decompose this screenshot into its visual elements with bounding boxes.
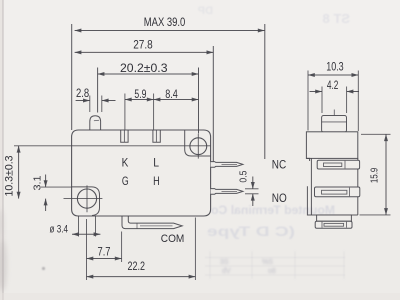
dim arrow line right: [102, 100, 116, 102]
bottom-left mounting boss: [72, 187, 100, 216]
ext line side left: [307, 71, 309, 131]
ext line left (body edge up): [71, 24, 73, 130]
ghost text row B: [207, 223, 295, 239]
svg-text:(C D Type: (C D Type: [207, 223, 295, 239]
hole crosshair v: [86, 185, 88, 212]
dim arrow line down: [45, 199, 47, 211]
svg-text:22.2: 22.2: [128, 261, 146, 273]
dim arrow line right: [347, 91, 359, 93]
NO blade slot: [222, 190, 238, 192]
plunger button front: [90, 116, 101, 130]
side view lower body widening: [307, 186, 357, 215]
ghost table bottom-right: [205, 251, 345, 279]
dim arrow line up: [45, 175, 47, 188]
ghost text row A: [211, 203, 335, 217]
ext line plunger left: [89, 96, 91, 113]
side view top block: [306, 132, 357, 159]
svg-text:27.8: 27.8: [133, 38, 153, 52]
hole crosshair h: [64, 198, 103, 200]
dim arrow line up: [252, 177, 254, 189]
side view COM tab: [315, 221, 352, 228]
side view centreline: [333, 110, 335, 147]
svg-text:COM: COM: [161, 233, 185, 245]
svg-text:7.7: 7.7: [98, 246, 111, 258]
dim line 5.9-8.4: [125, 99, 199, 101]
button inner line: [322, 121, 347, 123]
ext line terminal1 centre: [124, 94, 126, 130]
dim line ø3.4: [72, 233, 100, 235]
dim line 27.8: [75, 51, 214, 53]
svg-text:20.2±0.3: 20.2±0.3: [120, 61, 168, 75]
svg-text:DP: DP: [198, 5, 213, 17]
svg-text:3S: 3S: [220, 259, 229, 266]
svg-text:NC: NC: [272, 157, 287, 171]
COM blade slot: [140, 225, 173, 227]
ext line side bottom: [360, 214, 391, 216]
ext line blade bottom: [245, 193, 259, 195]
svg-text:o8: o8: [268, 268, 276, 275]
COM tab tick left: [321, 222, 323, 228]
svg-text:%S: %S: [262, 259, 273, 266]
ext line hole centre: [198, 68, 200, 134]
top terminal slot 1 (recess below edge): [121, 130, 128, 142]
side view button: [322, 116, 347, 133]
svg-text:G: G: [122, 174, 129, 188]
svg-text:K: K: [122, 155, 129, 169]
ext line top (to far hole): [14, 145, 210, 147]
switch body front view: [72, 130, 211, 216]
dim arrow line down: [252, 194, 254, 206]
right edge faint streak: [394, 105, 396, 175]
dim line 22.2: [87, 276, 196, 278]
ext line button right: [346, 87, 348, 114]
ext line blade top: [245, 188, 259, 190]
dim line 7.7: [87, 258, 122, 260]
page left edge shading: [0, 0, 3, 300]
dim line 20.2: [98, 73, 199, 75]
side view bottom neck: [317, 215, 352, 221]
hole crosshair v: [197, 134, 199, 159]
COM tab tick right: [346, 222, 348, 228]
top-right mounting hole: [190, 138, 207, 155]
ext line COM edge down: [121, 232, 123, 263]
COM terminal bent blade: [122, 216, 182, 229]
svg-text:dV: dV: [222, 268, 231, 275]
svg-text:8.4: 8.4: [165, 89, 178, 101]
dim arrow line left: [310, 91, 323, 93]
svg-text:L: L: [153, 155, 159, 169]
ext line right MAX39: [264, 24, 266, 159]
COM blade tick: [136, 223, 138, 229]
svg-text:0.5: 0.5: [237, 170, 249, 182]
plunger inner dash: [94, 119, 99, 121]
ext line right 22.2: [194, 218, 196, 281]
dim arrow line left: [76, 100, 90, 102]
svg-text:2.8: 2.8: [76, 88, 89, 100]
svg-text:ø 3.4: ø 3.4: [50, 224, 69, 236]
svg-text:ST 8: ST 8: [323, 11, 350, 26]
dim line 10.3: [308, 74, 358, 76]
svg-text:H: H: [153, 174, 160, 188]
ext line side top: [361, 133, 391, 135]
top terminal slot 2 (recess below edge): [153, 130, 160, 142]
ext line plunger right: [101, 96, 103, 113]
bottom-left mounting hole: [77, 189, 96, 208]
ext line hole left: [78, 216, 80, 237]
side view mid body: [306, 158, 357, 215]
side view NC tab: [317, 160, 359, 169]
NO terminal blade: [211, 189, 243, 195]
ghost top-center mark: [198, 5, 213, 17]
ext line hole right: [95, 216, 97, 237]
ext line terminal2 centre: [153, 94, 155, 130]
dim line MAX39: [75, 30, 265, 32]
ext line side right: [357, 71, 359, 132]
ext line boss top: [41, 186, 72, 188]
paper speck: [42, 267, 45, 270]
NO tab tick: [349, 188, 351, 197]
side view NO tab: [315, 187, 360, 197]
ghost top-right mark: [323, 11, 350, 26]
NC tab tick: [344, 161, 346, 169]
ext line button left: [321, 87, 323, 114]
top-right mounting boss: [185, 131, 211, 157]
NC terminal blade: [211, 162, 243, 168]
svg-text:5.9: 5.9: [134, 89, 146, 101]
NC blade slot: [222, 163, 238, 165]
svg-text:10.3: 10.3: [326, 60, 344, 74]
dim line 10.3 vertical: [18, 146, 20, 199]
ext line plunger centre: [97, 68, 99, 113]
svg-text:4.2: 4.2: [327, 80, 339, 92]
svg-text:MAX 39.0: MAX 39.0: [144, 15, 186, 29]
svg-text:NO: NO: [272, 191, 287, 205]
bottom band: [0, 293, 400, 300]
ext line hole centre down: [86, 219, 88, 280]
ext line right 27.8: [212, 46, 214, 162]
dim line 15.9: [385, 134, 387, 215]
svg-text:10.3±0.3: 10.3±0.3: [3, 156, 15, 197]
svg-text:3.1: 3.1: [31, 175, 43, 190]
svg-text:15.9: 15.9: [370, 168, 381, 184]
